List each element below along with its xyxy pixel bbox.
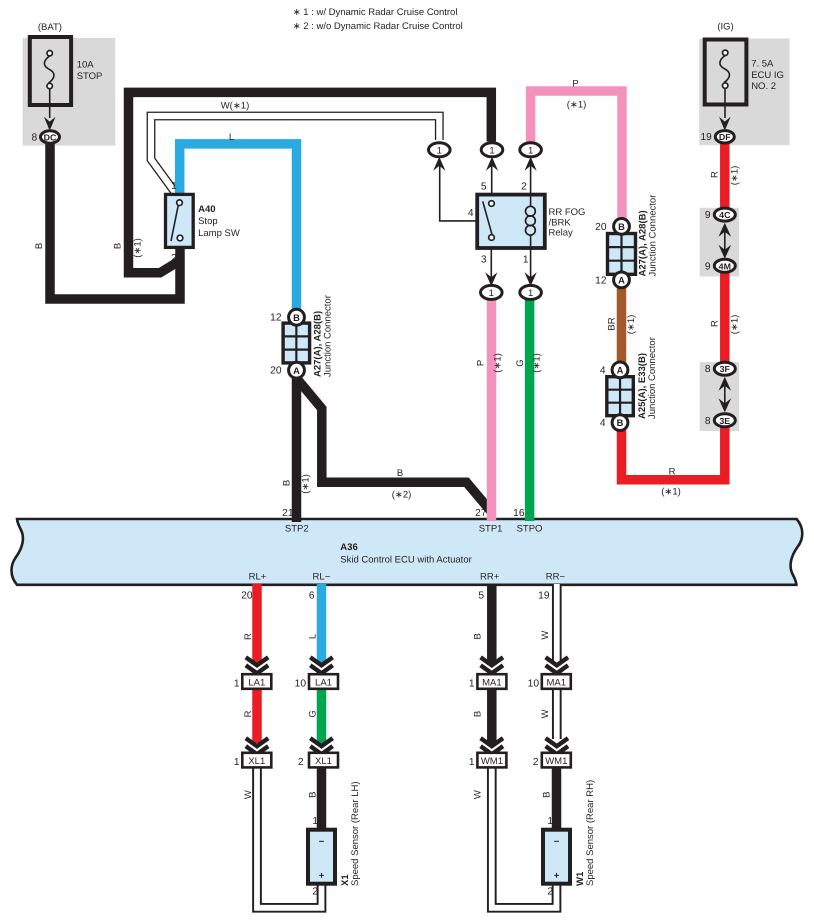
svg-text:4M: 4M: [719, 261, 731, 271]
svg-text:A: A: [617, 365, 624, 376]
svg-text:(∗1): (∗1): [626, 315, 637, 335]
svg-text:MA1: MA1: [482, 677, 502, 688]
svg-text:6: 6: [309, 591, 315, 602]
svg-text:(∗2): (∗2): [392, 490, 412, 501]
svg-text:19: 19: [538, 591, 550, 602]
svg-text:Junction Connector: Junction Connector: [323, 295, 334, 377]
svg-text:5: 5: [478, 591, 484, 602]
svg-text:2: 2: [521, 181, 527, 192]
svg-text:W: W: [540, 709, 551, 718]
svg-text:4: 4: [600, 418, 606, 429]
svg-text:B: B: [473, 711, 484, 717]
svg-text:3E: 3E: [719, 416, 730, 426]
svg-text:(IG): (IG): [717, 22, 733, 33]
svg-text:9: 9: [705, 261, 711, 272]
svg-text:(BAT): (BAT): [38, 22, 62, 33]
svg-text:WM1: WM1: [481, 756, 503, 767]
svg-text:B: B: [307, 792, 318, 798]
svg-text:XL1: XL1: [315, 756, 332, 767]
svg-text:RL−: RL−: [313, 572, 331, 583]
svg-text:DF: DF: [719, 132, 731, 142]
svg-text:Junction Connector: Junction Connector: [647, 337, 658, 419]
svg-text:+: +: [554, 871, 560, 882]
svg-text:∗ 2 : w/o Dynamic Radar Cruise: ∗ 2 : w/o Dynamic Radar Cruise Control: [293, 21, 463, 32]
svg-text:1: 1: [437, 146, 442, 157]
svg-text:G: G: [515, 359, 526, 366]
svg-text:2: 2: [298, 757, 304, 768]
svg-text:(∗1): (∗1): [133, 238, 144, 258]
svg-text:2: 2: [171, 253, 177, 264]
svg-text:10: 10: [295, 678, 307, 689]
svg-text:1: 1: [489, 146, 494, 157]
svg-text:12: 12: [270, 313, 282, 324]
svg-text:Stop: Stop: [198, 216, 218, 227]
svg-text:RL+: RL+: [249, 572, 267, 583]
svg-text:8: 8: [32, 132, 38, 143]
svg-text:1: 1: [469, 678, 475, 689]
svg-text:LA1: LA1: [248, 677, 265, 688]
svg-text:B: B: [397, 468, 403, 479]
svg-text:A: A: [618, 275, 625, 286]
svg-text:L: L: [229, 132, 234, 143]
svg-text:W: W: [243, 790, 254, 799]
svg-text:(∗1): (∗1): [567, 100, 587, 111]
svg-text:Lamp SW: Lamp SW: [198, 228, 240, 239]
svg-text:G: G: [307, 710, 318, 717]
svg-text:(∗1): (∗1): [532, 353, 543, 373]
svg-text:R: R: [710, 171, 721, 178]
svg-text:W(∗1): W(∗1): [221, 101, 250, 112]
svg-text:L: L: [307, 634, 318, 639]
svg-text:∗ 1 : w/ Dynamic Radar Cruise: ∗ 1 : w/ Dynamic Radar Cruise Control: [293, 7, 458, 18]
svg-text:WM1: WM1: [545, 756, 567, 767]
svg-text:NO. 2: NO. 2: [751, 81, 776, 92]
svg-text:1: 1: [528, 288, 533, 299]
svg-text:1: 1: [234, 678, 240, 689]
svg-text:27: 27: [475, 508, 487, 519]
svg-text:B: B: [473, 633, 484, 639]
svg-text:ECU IG: ECU IG: [751, 70, 784, 81]
svg-text:9: 9: [705, 210, 711, 221]
svg-text:P: P: [475, 360, 486, 366]
svg-text:Skid Control ECU with Actuator: Skid Control ECU with Actuator: [340, 554, 471, 565]
svg-text:R: R: [710, 320, 721, 327]
svg-text:3: 3: [481, 254, 487, 265]
svg-text:3F: 3F: [720, 364, 731, 374]
svg-text:Relay: Relay: [549, 227, 574, 238]
svg-text:STPO: STPO: [517, 524, 543, 535]
svg-text:(∗1): (∗1): [492, 353, 503, 373]
svg-text:8: 8: [705, 416, 711, 427]
svg-text:A36: A36: [340, 542, 357, 553]
svg-text:20: 20: [270, 366, 282, 377]
svg-text:R: R: [243, 710, 254, 717]
svg-text:10: 10: [528, 678, 540, 689]
svg-text:12: 12: [595, 275, 607, 286]
svg-text:P: P: [572, 79, 578, 90]
svg-text:4: 4: [600, 365, 606, 376]
svg-text:1: 1: [171, 181, 177, 192]
svg-text:B: B: [281, 480, 292, 486]
svg-text:8: 8: [705, 364, 711, 375]
svg-text:B: B: [617, 417, 624, 428]
svg-text:1: 1: [523, 254, 529, 265]
svg-text:(∗1): (∗1): [661, 487, 681, 498]
svg-text:DC: DC: [44, 132, 57, 142]
svg-text:R: R: [243, 633, 254, 640]
svg-text:B: B: [542, 792, 553, 798]
svg-text:Speed Sensor (Rear LH): Speed Sensor (Rear LH): [350, 781, 361, 886]
svg-text:XL1: XL1: [248, 756, 265, 767]
svg-text:Junction Connector: Junction Connector: [648, 195, 659, 277]
svg-text:19: 19: [700, 132, 712, 143]
svg-text:2: 2: [312, 887, 318, 898]
svg-text:10A: 10A: [77, 60, 95, 71]
svg-text:Speed Sensor (Rear RH): Speed Sensor (Rear RH): [585, 780, 596, 886]
svg-text:RR+: RR+: [480, 572, 500, 583]
svg-text:−: −: [319, 837, 325, 848]
svg-text:STOP: STOP: [77, 71, 103, 82]
svg-text:LA1: LA1: [315, 677, 332, 688]
svg-text:1: 1: [234, 757, 240, 768]
svg-text:1: 1: [312, 816, 318, 827]
svg-text:4C: 4C: [719, 210, 731, 220]
svg-text:7. 5A: 7. 5A: [751, 59, 774, 70]
svg-text:2: 2: [547, 887, 553, 898]
svg-text:A: A: [293, 365, 300, 376]
svg-text:R: R: [669, 466, 676, 477]
svg-text:1: 1: [528, 146, 533, 157]
svg-text:+: +: [319, 871, 325, 882]
svg-text:1: 1: [547, 816, 553, 827]
svg-text:B: B: [34, 243, 45, 249]
svg-text:−: −: [554, 837, 560, 848]
svg-text:RR−: RR−: [546, 572, 566, 583]
svg-text:W: W: [540, 631, 551, 640]
svg-text:5: 5: [481, 181, 487, 192]
svg-text:STP1: STP1: [479, 524, 503, 535]
svg-text:B: B: [618, 221, 625, 232]
svg-text:16: 16: [513, 508, 525, 519]
svg-text:21: 21: [282, 508, 294, 519]
svg-text:20: 20: [595, 222, 607, 233]
svg-text:(∗1): (∗1): [301, 474, 312, 494]
svg-text:B: B: [293, 312, 300, 323]
svg-text:W: W: [473, 790, 484, 799]
svg-text:2: 2: [533, 757, 539, 768]
svg-text:BR: BR: [607, 317, 618, 330]
svg-text:(∗1): (∗1): [730, 166, 741, 186]
svg-text:(∗1): (∗1): [730, 315, 741, 335]
svg-text:20: 20: [241, 591, 253, 602]
svg-text:A40: A40: [198, 204, 215, 215]
svg-text:STP2: STP2: [285, 524, 309, 535]
svg-text:MA1: MA1: [547, 677, 567, 688]
svg-text:4: 4: [468, 208, 474, 219]
svg-text:B: B: [113, 243, 124, 249]
svg-text:1: 1: [489, 288, 494, 299]
svg-text:1: 1: [469, 757, 475, 768]
